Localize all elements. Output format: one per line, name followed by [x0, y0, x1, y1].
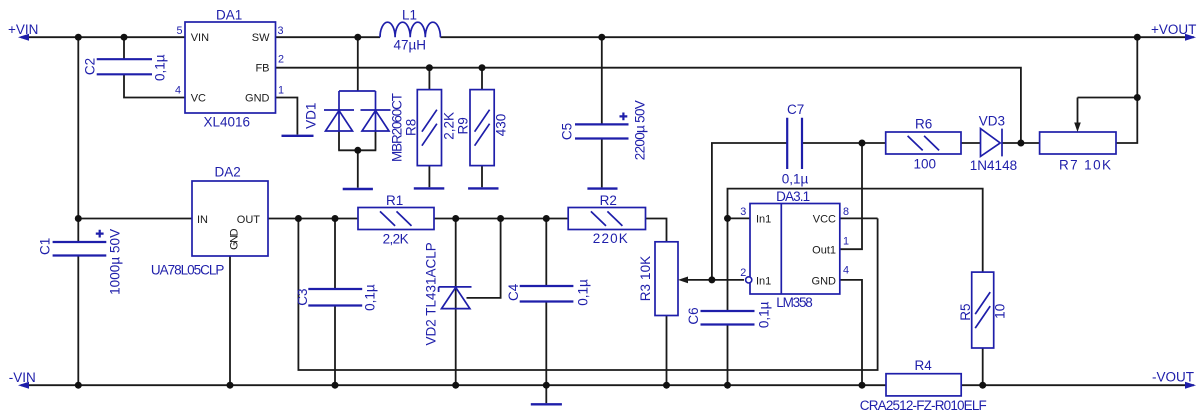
svg-text:-VIN: -VIN — [9, 370, 36, 385]
svg-text:2,2K: 2,2K — [442, 112, 457, 140]
node OUT/VCC feed — [295, 215, 302, 222]
wire R9 leads — [481, 68, 483, 188]
svg-text:C2: C2 — [82, 58, 97, 75]
svg-text:3: 3 — [740, 206, 746, 218]
wire R5 bottom — [982, 348, 984, 385]
wire C7 left to In1- — [712, 143, 787, 280]
wire R2 to R3 — [646, 219, 667, 242]
node +VOUT/C5 — [598, 34, 605, 41]
svg-text:0,1µ: 0,1µ — [363, 284, 378, 311]
svg-text:0,1µ: 0,1µ — [757, 301, 772, 328]
ground DA1 — [282, 135, 314, 137]
svg-text:DA3.1: DA3.1 — [776, 189, 810, 204]
wire R3 wiper to In1- — [683, 279, 744, 281]
node +VIN/C2 — [121, 34, 128, 41]
node In1+/C6 — [724, 215, 731, 222]
node R1/VD2 — [452, 215, 459, 222]
svg-text:UA78L05CLP: UA78L05CLP — [151, 263, 225, 278]
wire ground stub below rail — [545, 385, 547, 403]
wire OUT to R1 — [268, 218, 358, 220]
resistor R8 — [404, 90, 457, 166]
svg-text:C6: C6 — [686, 307, 701, 324]
svg-text:+VOUT: +VOUT — [1151, 22, 1196, 37]
node R1/ref — [497, 215, 504, 222]
wire +VIN rail — [21, 36, 185, 38]
port -VOUT — [1152, 369, 1196, 388]
shunt regulator VD2 TL431ACLP — [423, 242, 471, 345]
wire L1 to +VOUT — [440, 36, 1194, 38]
node rail/VD2 — [452, 382, 459, 389]
wire R6 to VD3 — [961, 142, 981, 144]
wire SW node to VD1 — [357, 37, 359, 91]
resistor R4 — [860, 358, 987, 413]
svg-text:R9: R9 — [455, 117, 470, 134]
wire In1+ pin — [728, 217, 751, 219]
ground VD1 — [343, 188, 373, 190]
wire DA1 GND pin to ground — [276, 98, 298, 135]
svg-text:OUT: OUT — [237, 214, 261, 226]
svg-text:1000µ 50V: 1000µ 50V — [108, 229, 123, 295]
wire VCC pin — [840, 217, 878, 219]
capacitor C2 — [82, 54, 167, 81]
svg-text:430: 430 — [494, 114, 509, 137]
svg-text:R7 10K: R7 10K — [1059, 158, 1111, 173]
node rail/R3 — [663, 382, 670, 389]
svg-text:+VIN: +VIN — [8, 22, 38, 37]
wire R3 bottom — [666, 316, 668, 386]
wire R4 to -VOUT — [961, 384, 1194, 386]
port +VOUT — [1151, 22, 1196, 41]
svg-text:DA1: DA1 — [216, 8, 242, 23]
svg-text:Out1: Out1 — [812, 245, 836, 257]
node R1/C4 — [543, 215, 550, 222]
wire C2 top — [123, 37, 125, 59]
svg-text:R8: R8 — [404, 119, 419, 136]
svg-text:L1: L1 — [402, 8, 417, 23]
ground R8 — [414, 187, 445, 189]
svg-text:GND: GND — [812, 276, 837, 288]
svg-text:VIN: VIN — [191, 32, 209, 44]
wire VD3 to R7 — [1002, 142, 1040, 144]
wire VD1 anodes to ground — [338, 131, 376, 188]
svg-text:0,1µ: 0,1µ — [782, 172, 809, 187]
potentiometer R7 — [1040, 98, 1116, 173]
svg-text:VC: VC — [191, 93, 206, 105]
inductor L1 — [380, 8, 440, 53]
svg-text:-VOUT: -VOUT — [1152, 369, 1194, 384]
wire 5V feed to LM358 VCC — [298, 218, 877, 370]
svg-text:MBR2060CT: MBR2060CT — [390, 93, 405, 162]
node VD1 anode — [354, 147, 361, 154]
svg-text:In1: In1 — [756, 213, 771, 225]
svg-text:R6: R6 — [915, 116, 932, 131]
node VD3/FB — [1017, 140, 1024, 147]
wire TL431 ref — [467, 219, 501, 298]
svg-text:2: 2 — [740, 267, 746, 279]
wire IN pin — [78, 218, 192, 220]
wiper wire — [1077, 98, 1079, 125]
node In1-/C7 — [708, 276, 715, 283]
wire left vertical lower — [77, 256, 79, 386]
resistor R5 — [958, 272, 1008, 348]
svg-text:VD1: VD1 — [303, 103, 318, 129]
svg-text:R2: R2 — [600, 193, 617, 208]
svg-text:LM358: LM358 — [776, 295, 813, 310]
wire C5 top — [601, 37, 603, 124]
wire LM358 GND pin to rail — [840, 280, 862, 385]
svg-text:C1: C1 — [37, 238, 52, 255]
wire R7 wiper link — [1078, 97, 1138, 99]
resistor R1 — [358, 193, 434, 247]
capacitor C5 — [560, 100, 648, 160]
svg-text:47µH: 47µH — [394, 38, 427, 53]
potentiometer R3 — [638, 242, 688, 316]
node rail/LM358 GND — [859, 382, 866, 389]
node rail/DA2 GND — [227, 382, 234, 389]
svg-text:SW: SW — [252, 32, 270, 44]
capacitor C3 — [295, 284, 378, 311]
capacitor C1 — [37, 229, 122, 295]
IC DA2 UA78L05CLP — [151, 165, 268, 278]
node rail/C1 — [75, 382, 82, 389]
node R7 wiper — [1134, 94, 1141, 101]
svg-text:C7: C7 — [787, 102, 804, 117]
node SW/VD1 — [354, 34, 361, 41]
node rail/C6 — [724, 382, 731, 389]
svg-text:C3: C3 — [295, 288, 310, 305]
svg-text:4: 4 — [175, 85, 181, 97]
svg-text:2,2K: 2,2K — [383, 232, 409, 247]
wire FB net — [276, 68, 1021, 143]
svg-text:VD3: VD3 — [979, 113, 1005, 128]
svg-text:CRA2512-FZ-R010ELF: CRA2512-FZ-R010ELF — [860, 398, 987, 413]
svg-text:5: 5 — [176, 25, 182, 37]
svg-text:4: 4 — [843, 265, 849, 277]
svg-text:3: 3 — [278, 25, 284, 37]
ground rail — [531, 403, 562, 405]
op-amp DA3.1 LM358 — [740, 189, 849, 310]
svg-text:1N4148: 1N4148 — [970, 158, 1017, 173]
wire In1+ node to R5 — [728, 189, 983, 273]
svg-text:100: 100 — [914, 157, 937, 172]
node +VOUT/R7 — [1134, 34, 1141, 41]
wire C5 bottom to ground — [601, 139, 603, 188]
svg-text:FB: FB — [255, 63, 269, 75]
IC DA1 XL4016 — [175, 8, 284, 130]
svg-text:C4: C4 — [506, 283, 521, 301]
svg-text:0,1µ: 0,1µ — [152, 54, 167, 81]
resistor R2 — [568, 193, 645, 246]
wire C4 top — [545, 219, 547, 287]
resistor R9 — [455, 90, 508, 166]
ground C5 — [587, 187, 617, 189]
wire C7 right to R6 — [802, 142, 886, 144]
wire left vertical upper — [77, 37, 79, 242]
dual diode VD1 MBR2060CT — [303, 91, 404, 162]
svg-text:DA2: DA2 — [215, 165, 241, 180]
node rail/C3 — [332, 382, 339, 389]
svg-text:10: 10 — [993, 304, 1008, 319]
wire C4 bottom — [545, 302, 547, 386]
resistor R6 — [886, 116, 961, 171]
svg-text:GND: GND — [228, 228, 240, 250]
node rail/C4 — [543, 382, 550, 389]
inverting input circle — [746, 277, 752, 283]
node Out1/R6 — [859, 140, 866, 147]
svg-text:R3 10K: R3 10K — [638, 256, 653, 302]
svg-text:R5: R5 — [958, 303, 973, 320]
svg-text:1: 1 — [278, 85, 284, 97]
capacitor C4 — [506, 279, 590, 306]
wire C6 top — [727, 218, 729, 311]
wire VD2 column — [455, 219, 457, 386]
ground R9 — [468, 187, 498, 189]
node +VIN/C1 — [75, 34, 82, 41]
svg-text:2200µ 50V: 2200µ 50V — [632, 100, 647, 160]
wire DA2 GND stub — [229, 256, 231, 385]
wire Out1 to R6 node — [840, 143, 862, 249]
wire C3 top — [334, 219, 336, 290]
wire R8 leads — [428, 68, 430, 188]
diode VD3 1N4148 — [970, 113, 1017, 173]
capacitor C7 — [782, 102, 809, 186]
node FB/R9 — [479, 64, 486, 71]
wire R7 right to +VOUT — [1116, 37, 1137, 143]
wire C2 bottom to VC pin — [124, 74, 185, 97]
svg-text:R4: R4 — [915, 358, 933, 373]
svg-text:GND: GND — [245, 93, 270, 105]
wire R1 to R2 — [434, 218, 568, 220]
wire SW to L1 — [276, 36, 381, 38]
svg-text:VD2 TL431ACLP: VD2 TL431ACLP — [423, 242, 438, 345]
svg-text:In1: In1 — [756, 276, 771, 288]
node FB/R8 — [426, 64, 433, 71]
port +VIN — [8, 22, 38, 41]
wire C3 bottom — [334, 306, 336, 386]
svg-text:220K: 220K — [593, 231, 628, 246]
wire -VIN rail — [21, 384, 886, 386]
node rail/R5 — [979, 382, 986, 389]
svg-text:XL4016: XL4016 — [204, 115, 251, 130]
svg-text:R1: R1 — [386, 193, 403, 208]
svg-text:2: 2 — [278, 54, 284, 66]
svg-text:8: 8 — [843, 206, 849, 218]
svg-text:C5: C5 — [560, 123, 575, 140]
svg-text:0,1µ: 0,1µ — [575, 279, 590, 306]
svg-text:IN: IN — [197, 214, 208, 226]
capacitor C6 — [686, 301, 772, 328]
port -VIN — [9, 370, 36, 389]
wire C6 bottom — [727, 325, 729, 386]
svg-text:VCC: VCC — [813, 213, 836, 225]
node IN/C1 — [75, 215, 82, 222]
node OUT/C3 — [332, 215, 339, 222]
svg-text:1: 1 — [843, 235, 849, 247]
